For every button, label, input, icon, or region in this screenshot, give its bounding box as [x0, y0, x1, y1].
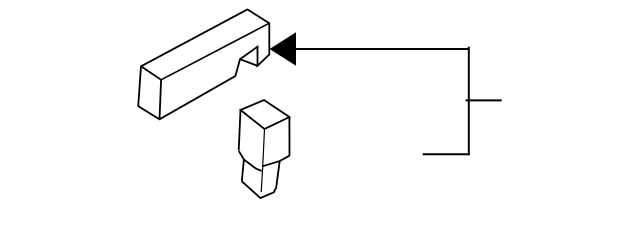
- clip stem left edge: [242, 159, 244, 181]
- clip front vertical edge (head + stem): [261, 129, 264, 192]
- clip head bottom-right edge: [262, 156, 289, 167]
- bracket left end face edges A-D and D-C: [141, 66, 161, 119]
- bracket top-face inner edge D-F: [161, 23, 269, 80]
- clip head bottom-left step edge: [239, 151, 262, 171]
- arrow head (solid black, pointing left at bracket): [270, 32, 296, 66]
- middle tick line: [466, 99, 502, 101]
- clip head left vertical edge: [239, 110, 241, 151]
- part: door handle bracket (large isometric bar) outline: [138, 9, 269, 119]
- bottom horizontal line: [423, 153, 470, 155]
- clip stem bottom and right edges: [242, 161, 280, 198]
- clip: small part head top face: [241, 100, 290, 129]
- leader line from arrow to the right: [296, 48, 470, 50]
- bracket notch inner bottom edge P2-P4: [240, 59, 258, 66]
- clip head right vertical edge: [288, 117, 290, 156]
- vertical leader line: [468, 47, 470, 155]
